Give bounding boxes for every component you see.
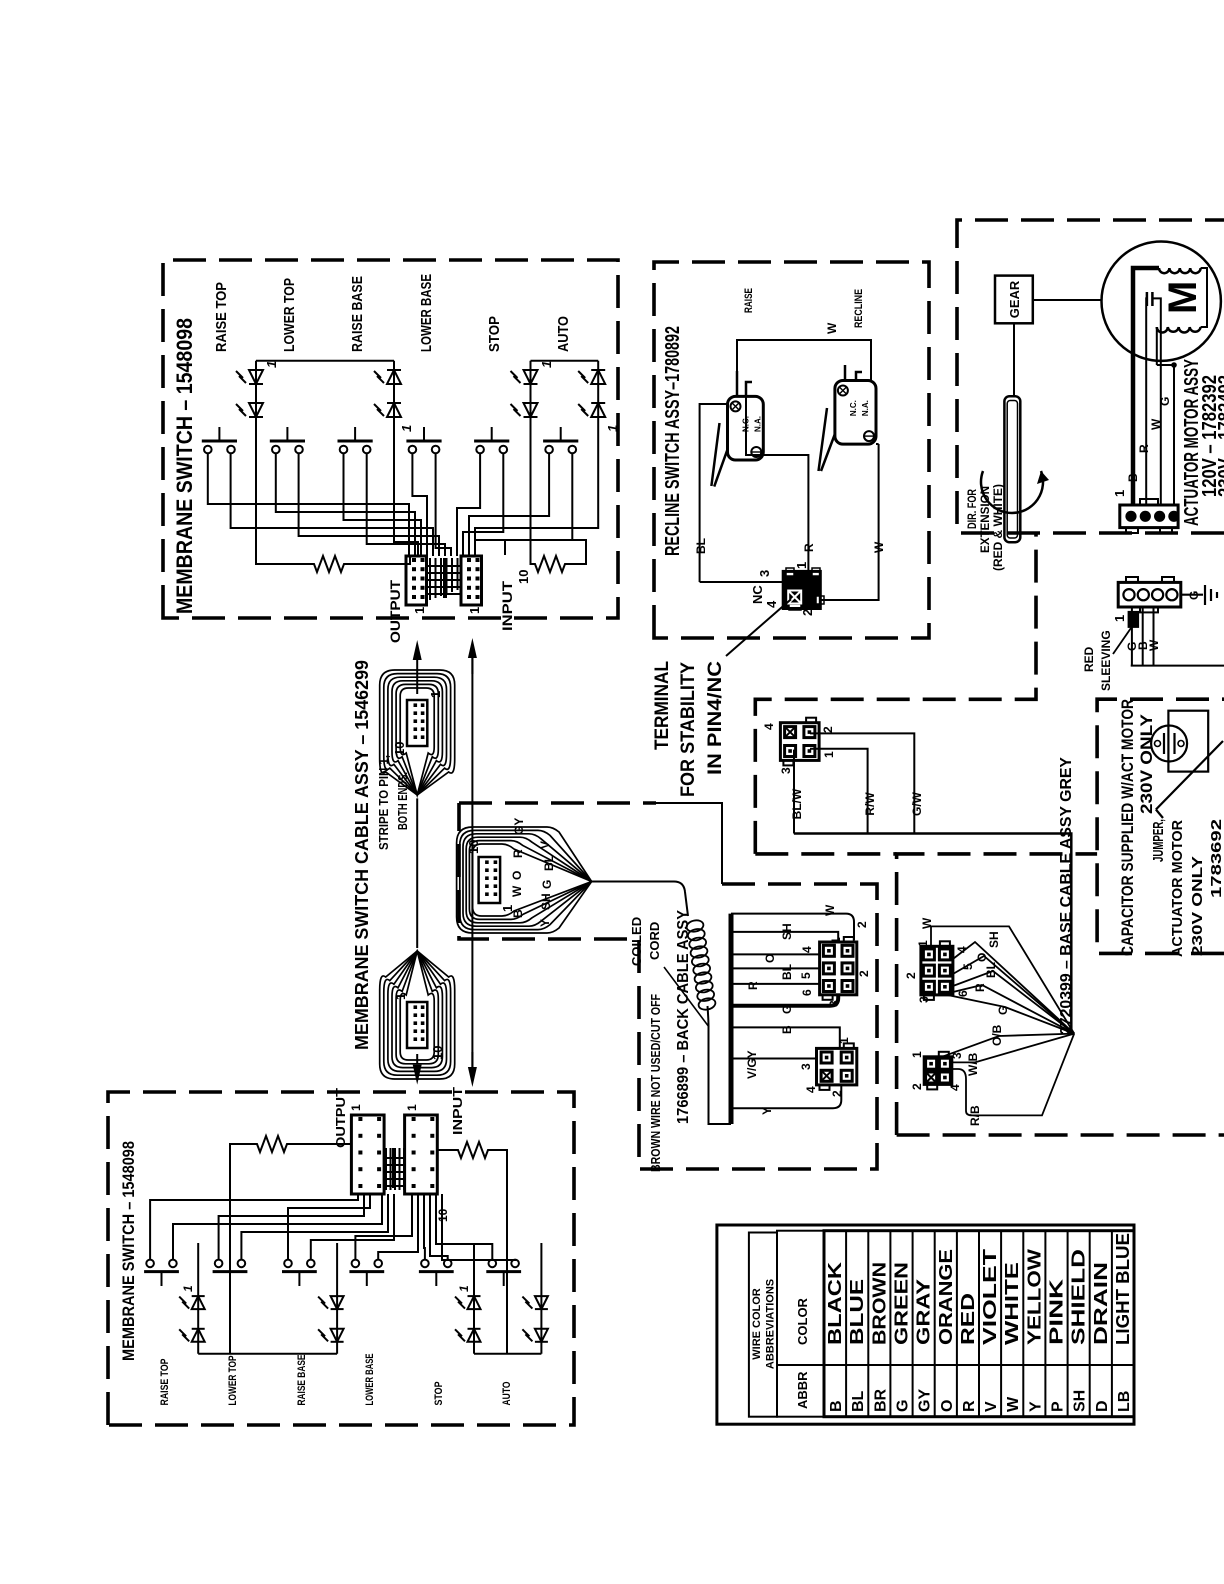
svg-text:V: V — [538, 841, 552, 849]
svg-text:2: 2 — [821, 726, 835, 733]
LED chain C wire (box2) — [473, 1243, 475, 1354]
label INPUT (box1) — [499, 580, 515, 631]
svg-text:5: 5 — [799, 972, 813, 979]
svg-text:BLUE: BLUE — [847, 1279, 867, 1345]
cable wire fan lower — [380, 951, 455, 1079]
cable wire fan upper — [380, 670, 455, 795]
motor wire R — [1137, 298, 1151, 505]
svg-text:B: B — [780, 1025, 794, 1034]
LED D5 — [511, 370, 538, 384]
resistor R1 (box1, vertical zigzag) — [311, 556, 348, 572]
chain join A-B (box2) — [198, 1353, 337, 1355]
membrane switch cable assy label — [352, 660, 410, 1050]
svg-text:LOWER TOP: LOWER TOP — [281, 278, 298, 352]
LED D6 — [511, 403, 538, 417]
LED D9 — [179, 1329, 205, 1342]
svg-text:2: 2 — [855, 921, 869, 928]
svg-text:1: 1 — [822, 751, 836, 758]
red sleeving label — [1082, 628, 1131, 691]
svg-text:O: O — [975, 953, 989, 962]
svg-text:VIOLET: VIOLET — [980, 1249, 1000, 1345]
label STOP (box2) — [433, 1382, 445, 1406]
svg-text:RAISE BASE: RAISE BASE — [349, 276, 366, 352]
svg-text:R: R — [961, 1400, 978, 1412]
table row G GREEN — [892, 1262, 912, 1412]
svg-text:1783692: 1783692 — [1208, 819, 1224, 898]
svg-text:3: 3 — [779, 767, 793, 774]
wire color table outer border — [717, 1225, 1134, 1424]
motor circle — [1102, 241, 1221, 360]
svg-text:ABBR: ABBR — [795, 1371, 810, 1409]
svg-text:2: 2 — [904, 972, 918, 979]
svg-text:BL: BL — [694, 538, 708, 554]
label 1 at OUTPUT — [412, 607, 427, 614]
gear box — [995, 276, 1033, 324]
pin label 1 (4-pin back) — [837, 1037, 851, 1044]
svg-text:B: B — [828, 1400, 845, 1412]
LED D7 — [578, 370, 605, 384]
svg-text:V: V — [983, 1401, 1000, 1412]
svg-text:1: 1 — [605, 425, 620, 432]
LED D15 — [522, 1329, 548, 1342]
SW2 lever — [819, 408, 835, 471]
pin label 3 (6-pin grey) — [917, 996, 931, 1003]
pin label 2 (BL/W conn) — [821, 726, 835, 733]
LED chain C wire (box1) — [531, 361, 533, 564]
connector OUTPUT (box2) 10-pin — [351, 1115, 384, 1194]
svg-text:OUTPUT: OUTPUT — [387, 580, 403, 643]
pin label 4 (4-pin grey) — [948, 1084, 962, 1091]
svg-text:RED: RED — [1082, 646, 1096, 672]
capacitor symbol circle — [1151, 726, 1187, 762]
pin label 4 (6-pin grey) — [955, 946, 969, 953]
svg-text:BLACK: BLACK — [825, 1262, 845, 1345]
long input wire — [471, 648, 473, 1076]
svg-text:SH: SH — [780, 923, 794, 940]
svg-text:W/B: W/B — [966, 1052, 980, 1076]
svg-text:COLOR: COLOR — [795, 1297, 810, 1345]
svg-text:DRAIN: DRAIN — [1091, 1262, 1111, 1345]
svg-text:R: R — [973, 983, 987, 992]
label 1 at OUTPUT (box2) — [349, 1104, 363, 1111]
label 10 at INPUT — [516, 570, 531, 584]
pin label 2 (6-pin grey) — [904, 972, 918, 979]
base cable assy grey label — [1058, 757, 1075, 1035]
back cable wire labels — [745, 904, 837, 1115]
pin label 6 (6-pin back) — [800, 989, 814, 996]
coiled cord label — [629, 917, 709, 1027]
svg-text:MEMBRANE SWITCH – 1548098: MEMBRANE SWITCH – 1548098 — [119, 1141, 138, 1361]
SW1 lever — [711, 423, 727, 487]
microswitch RECLINE SW2 — [835, 381, 876, 445]
label LOWER BASE (box1) — [418, 274, 435, 352]
connector interconnect weave (box1) — [426, 558, 461, 600]
switch AUTO (box1) — [543, 427, 578, 453]
svg-text:YELLOW: YELLOW — [1024, 1249, 1044, 1345]
svg-text:G: G — [780, 1005, 794, 1014]
LED D8 — [578, 403, 605, 417]
svg-text:2: 2 — [857, 970, 871, 977]
LED chain B wire (box2) — [336, 1243, 338, 1354]
svg-text:2: 2 — [800, 609, 815, 616]
jumper label — [1150, 819, 1224, 957]
svg-text:1: 1 — [181, 1285, 195, 1292]
capacitor supplied label — [1118, 699, 1156, 956]
svg-text:W: W — [872, 541, 886, 553]
BL/W wire — [790, 750, 804, 834]
cable single wire — [416, 798, 418, 948]
svg-text:STOP: STOP — [486, 316, 503, 352]
pin label 3 (BL/W conn) — [779, 767, 793, 774]
svg-text:EXTENSION: EXTENSION — [978, 486, 992, 553]
svg-text:G/W: G/W — [910, 791, 924, 816]
capacitor rect — [1168, 711, 1208, 772]
switch STOP (box1) — [474, 427, 509, 453]
SW2 terminals — [845, 365, 862, 381]
connector INPUT (box2) 10-pin — [405, 1115, 438, 1194]
recline W top rail — [737, 322, 871, 380]
actuator motor title — [1181, 359, 1224, 526]
label AUTO (box1) — [555, 316, 572, 352]
svg-text:Y: Y — [760, 1107, 774, 1115]
pin label 1 (BL/W conn) — [822, 751, 836, 758]
svg-text:1: 1 — [457, 1285, 471, 1292]
back cable assy label — [675, 910, 692, 1124]
label 1 near D8 — [605, 425, 620, 432]
svg-text:GY: GY — [512, 818, 526, 835]
base cable assy grey dashed box — [897, 854, 1224, 1135]
chain C-D join wire — [531, 360, 599, 362]
pin label 4 (6-pin back) — [800, 946, 814, 953]
lead screw — [1004, 396, 1020, 542]
pin label 3 (6-pin back) — [827, 1000, 841, 1007]
svg-text:RAISE TOP: RAISE TOP — [213, 282, 230, 352]
svg-text:1: 1 — [1112, 490, 1127, 497]
mating wires G B W — [1125, 607, 1224, 666]
label INPUT (box2) — [450, 1087, 465, 1135]
svg-text:4: 4 — [948, 1084, 962, 1091]
svg-text:GEAR: GEAR — [1007, 280, 1022, 318]
svg-text:W: W — [825, 322, 839, 334]
table row W WHITE — [1002, 1262, 1022, 1412]
recline connector fill — [783, 568, 824, 610]
back cable branch wires — [731, 914, 854, 1109]
svg-text:B: B — [1126, 473, 1140, 482]
table row P PINK — [1047, 1279, 1067, 1412]
svg-text:SH: SH — [539, 893, 553, 910]
chain join C-D (box2) — [474, 1353, 541, 1355]
label AUTO (box2) — [501, 1381, 513, 1405]
svg-text:1: 1 — [539, 361, 554, 368]
base cable fan wires — [931, 926, 1074, 1115]
pin label 5 (6-pin grey) — [961, 963, 975, 970]
svg-text:RAISE BASE: RAISE BASE — [296, 1355, 308, 1406]
svg-text:JUMPER,: JUMPER, — [1150, 819, 1167, 862]
table row SH SHIELD — [1069, 1249, 1089, 1412]
svg-text:ABBREVIATIONS: ABBREVIATIONS — [765, 1279, 777, 1369]
recline W wire — [820, 444, 886, 600]
svg-text:1766899 – BACK CABLE ASSY: 1766899 – BACK CABLE ASSY — [675, 910, 692, 1124]
svg-text:2: 2 — [830, 1090, 844, 1097]
connector back cable 4-pin — [817, 1043, 857, 1090]
svg-text:M: M — [1161, 281, 1205, 314]
arrow to box2 input (left) — [468, 1052, 477, 1087]
svg-text:LB: LB — [1116, 1391, 1133, 1412]
switch LOWER BASE (box1) — [406, 427, 441, 453]
svg-text:1: 1 — [794, 562, 809, 569]
fan-out loops — [457, 827, 592, 933]
table row GY GRAY — [914, 1279, 934, 1412]
motor wire G — [1157, 362, 1177, 505]
svg-text:1: 1 — [264, 361, 279, 368]
table row R RED — [958, 1293, 978, 1412]
svg-text:ORANGE: ORANGE — [936, 1249, 956, 1345]
recline R wire — [746, 396, 816, 571]
R/W wire — [810, 749, 877, 834]
svg-text:4: 4 — [804, 1086, 818, 1093]
LED D3 — [374, 370, 401, 384]
back cable bus (thick) — [729, 914, 734, 1124]
svg-text:1: 1 — [829, 937, 843, 944]
LED chain A wire (box2) — [197, 1243, 199, 1354]
svg-text:BL: BL — [984, 962, 998, 978]
LED D2 — [236, 403, 263, 417]
pin label 4 (BL/W conn) — [762, 723, 776, 730]
coiled cord — [686, 919, 717, 1011]
svg-text:R: R — [511, 849, 525, 858]
svg-text:FOR STABILITY: FOR STABILITY — [678, 662, 699, 797]
svg-text:MEMBRANE SWITCH – 1548098: MEMBRANE SWITCH – 1548098 — [172, 318, 197, 614]
svg-text:O: O — [939, 1400, 956, 1412]
svg-text:230V ONLY: 230V ONLY — [1189, 856, 1206, 956]
svg-text:W: W — [1147, 639, 1161, 651]
wire overlapping box edge — [656, 803, 722, 884]
label 10 upper cable conn — [392, 742, 407, 756]
svg-text:W: W — [510, 885, 524, 897]
svg-text:3: 3 — [827, 1000, 841, 1007]
svg-text:WHITE: WHITE — [1002, 1262, 1022, 1345]
label 1 at INPUT (box2) — [405, 1104, 419, 1111]
svg-text:CAPACITOR SUPPLIED W/ACT MOTOR: CAPACITOR SUPPLIED W/ACT MOTOR — [1118, 699, 1137, 956]
label 1 mating connector — [1112, 615, 1127, 622]
table row V VIOLET — [980, 1249, 1000, 1412]
motor connector — [1120, 499, 1180, 533]
label NC — [750, 585, 765, 604]
svg-text:Y: Y — [1027, 1401, 1044, 1412]
svg-text:3: 3 — [917, 996, 931, 1003]
connector base cable 4-pin grey — [924, 1052, 952, 1090]
svg-text:1: 1 — [405, 1104, 419, 1111]
svg-text:LOWER TOP: LOWER TOP — [227, 1356, 239, 1406]
svg-text:4: 4 — [800, 946, 814, 953]
pin label 3 (4-pin back) — [799, 1063, 813, 1070]
svg-text:RED: RED — [958, 1293, 978, 1345]
svg-text:1: 1 — [467, 607, 482, 614]
svg-text:LIGHT BLUE: LIGHT BLUE — [1113, 1233, 1133, 1345]
svg-text:LOWER BASE: LOWER BASE — [364, 1354, 376, 1406]
LED D4 — [374, 403, 401, 417]
label RAISE TOP (box2) — [159, 1359, 171, 1406]
motor wire W — [1149, 298, 1163, 505]
switch LOWER TOP (box2) — [213, 1260, 248, 1286]
svg-text:4: 4 — [764, 600, 779, 608]
switch LOWER TOP (box1) — [270, 427, 305, 453]
recline switch title — [662, 326, 684, 556]
resistor R4 (box2) — [437, 1142, 507, 1354]
pin label 5 (6-pin back) — [799, 972, 813, 979]
label 1 near D14 — [457, 1285, 471, 1292]
label 1 near D10 — [181, 1285, 195, 1292]
svg-text:BROWN WIRE NOT USED/CUT OFF: BROWN WIRE NOT USED/CUT OFF — [649, 994, 663, 1172]
arrow to box2 output (left) — [413, 1054, 422, 1085]
leader to pin4/NC — [726, 599, 791, 656]
label LOWER TOP (box1) — [281, 278, 298, 352]
svg-text:1: 1 — [428, 691, 443, 698]
svg-text:RECLINE: RECLINE — [853, 289, 865, 328]
label RAISE BASE (box2) — [296, 1355, 308, 1406]
svg-text:1: 1 — [412, 607, 427, 614]
pin label 1 (6-pin grey) — [916, 940, 930, 947]
membrane switch box 2 (dashed border) — [108, 1092, 574, 1425]
label 1 fan-out conn — [500, 905, 515, 912]
svg-text:AUTO: AUTO — [501, 1381, 513, 1405]
table row LB LIGHT BLUE — [1113, 1233, 1133, 1412]
svg-text:COILED: COILED — [629, 917, 644, 966]
rotation arc arrow — [981, 471, 1049, 513]
svg-text:V/GY: V/GY — [745, 1050, 759, 1079]
svg-text:RAISE TOP: RAISE TOP — [159, 1359, 171, 1406]
label G at ground — [1187, 591, 1201, 600]
svg-text:1: 1 — [916, 940, 930, 947]
svg-text:W: W — [1149, 418, 1163, 430]
BL/W connector dashed box — [755, 533, 1036, 854]
svg-text:W: W — [1005, 1396, 1022, 1412]
svg-text:R: R — [746, 981, 760, 990]
pin label 4 (recline conn) — [764, 600, 779, 608]
svg-text:GREEN: GREEN — [892, 1262, 912, 1345]
svg-text:INPUT: INPUT — [499, 580, 515, 631]
terminal stability note — [652, 661, 726, 797]
motor winding B — [1157, 327, 1201, 333]
svg-text:3: 3 — [757, 570, 772, 577]
svg-text:1: 1 — [349, 1104, 363, 1111]
svg-text:1: 1 — [837, 1037, 851, 1044]
svg-text:230V – 1782492: 230V – 1782492 — [1215, 375, 1224, 497]
chain A-B join wire — [256, 360, 394, 362]
table header box — [749, 1233, 777, 1417]
back cable G wire (thick) — [731, 996, 838, 1006]
svg-text:(RED & WHITE): (RED & WHITE) — [991, 484, 1005, 571]
table header row ABBR / COLOR — [777, 1231, 1134, 1417]
svg-text:PINK: PINK — [1047, 1279, 1067, 1345]
svg-text:1: 1 — [399, 425, 414, 432]
svg-text:AUTO: AUTO — [555, 316, 572, 352]
table row O ORANGE — [936, 1249, 956, 1412]
svg-text:B: B — [511, 909, 525, 918]
label 1 lower cable conn — [393, 993, 408, 1000]
wire to coiled cord — [592, 882, 688, 917]
label 1 motor connector — [1112, 490, 1127, 497]
harness wires box1 — [208, 453, 573, 556]
svg-text:ACTUATOR MOTOR: ACTUATOR MOTOR — [1169, 820, 1186, 957]
brown wire note — [649, 994, 663, 1172]
harness wires box2 — [150, 1194, 515, 1260]
svg-text:10: 10 — [516, 570, 531, 584]
switch RAISE TOP (box2) — [144, 1260, 179, 1286]
actuator motor box (dashed border, open right) — [957, 220, 1224, 533]
svg-text:RECLINE SWITCH ASSY–1780892: RECLINE SWITCH ASSY–1780892 — [662, 326, 684, 556]
table row BR BROWN — [869, 1262, 889, 1412]
arrow to box1 output (right) — [413, 640, 422, 694]
connector fan-out 10-pin — [479, 857, 501, 903]
LED chain B wire (box1) — [394, 361, 418, 555]
membrane switch 1 title — [172, 318, 197, 614]
gear to motor wire — [1033, 299, 1102, 301]
label OUTPUT (box1) — [387, 580, 403, 643]
back cable / fan-out combined dashed box — [459, 803, 877, 1169]
membrane switch 2 title — [119, 1141, 138, 1361]
label RAISE — [743, 288, 755, 313]
svg-text:G: G — [540, 880, 554, 889]
LED chain D wire (box1) — [475, 361, 598, 555]
label RAISE TOP (box1) — [213, 282, 230, 352]
resistor R2 (box1) — [532, 556, 569, 572]
resistor R3 (box2) — [230, 1136, 351, 1354]
svg-text:3: 3 — [799, 1063, 813, 1070]
motor winding A — [1159, 268, 1201, 273]
label 1 at INPUT — [467, 607, 482, 614]
svg-text:BL: BL — [780, 964, 794, 980]
svg-text:GY: GY — [917, 1389, 934, 1412]
svg-text:GRAY: GRAY — [914, 1279, 934, 1345]
wire R1 to OUTPUT — [348, 555, 410, 564]
switch RAISE BASE (box2) — [282, 1260, 317, 1286]
pin label 2 (6-pin back) — [857, 970, 871, 977]
svg-text:INPUT: INPUT — [450, 1087, 465, 1135]
table row B BLACK — [825, 1262, 845, 1412]
connector cable upper 10-pin — [407, 700, 427, 746]
label 1 near D4 — [399, 425, 414, 432]
svg-text:BROWN: BROWN — [869, 1262, 889, 1345]
LED D1 — [236, 370, 263, 384]
svg-text:MEMBRANE SWITCH CABLE ASSY – 1: MEMBRANE SWITCH CABLE ASSY – 1546299 — [352, 660, 372, 1050]
label 10 fan-out conn — [466, 840, 481, 854]
fan-out wire labels — [510, 818, 556, 927]
LED D12 — [318, 1296, 344, 1309]
svg-text:1: 1 — [1112, 615, 1127, 622]
motor capacitor plates — [1147, 292, 1153, 306]
LED D13 — [455, 1329, 481, 1342]
SW1 terminals — [737, 371, 752, 396]
G/W wire — [810, 733, 924, 833]
svg-text:O: O — [510, 871, 524, 880]
table row Y YELLOW — [1024, 1249, 1044, 1412]
LED D16 — [522, 1296, 548, 1309]
pin label 3 (4-pin grey) — [950, 1052, 964, 1059]
label 1 near D5 — [539, 361, 554, 368]
pin label W (6-pin grey) — [920, 917, 934, 929]
svg-text:6: 6 — [800, 989, 814, 996]
svg-text:BL/W: BL/W — [790, 788, 804, 819]
pin label 3 (recline conn) — [757, 570, 772, 577]
gear to screw wire — [1013, 323, 1015, 396]
svg-text:R/W: R/W — [863, 792, 877, 816]
connector BL/W 4-pin — [780, 718, 819, 766]
capacitor supplied dashed box — [1097, 699, 1224, 953]
connector interconnect weave (box2) — [384, 1148, 405, 1190]
svg-text:OUTPUT: OUTPUT — [333, 1088, 348, 1148]
LED D10 — [179, 1296, 205, 1309]
